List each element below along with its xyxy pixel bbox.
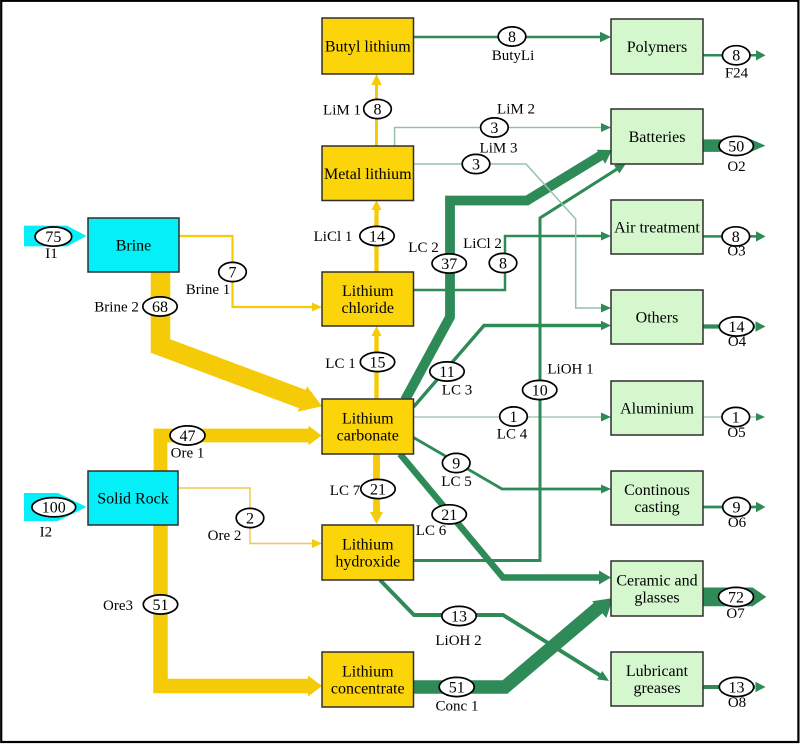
flow Ore3 (51) Solid Rock->Lithium concentrate	[161, 524, 311, 686]
svg-text:Brine: Brine	[116, 238, 152, 255]
svg-text:glasses: glasses	[634, 590, 679, 607]
svg-text:21: 21	[441, 507, 457, 524]
svg-text:Lithium: Lithium	[342, 411, 394, 428]
value ellipse O2 = 50	[719, 136, 753, 155]
value ellipse F24 = 8	[722, 46, 750, 65]
flow LiM 3 (3) Metal lithium->Others	[414, 164, 604, 308]
svg-text:O3: O3	[727, 244, 745, 260]
svg-text:Metal lithium: Metal lithium	[324, 166, 412, 183]
svg-text:72: 72	[728, 589, 744, 606]
svg-text:LC 3: LC 3	[442, 383, 472, 399]
svg-text:8: 8	[508, 29, 516, 46]
flow Brine 2 (68) Brine->Lithium carbonate	[161, 272, 310, 402]
svg-text:9: 9	[452, 455, 460, 472]
process box Brine	[88, 218, 179, 272]
svg-text:I1: I1	[45, 246, 58, 262]
svg-text:ButyLi: ButyLi	[492, 48, 535, 64]
svg-text:O8: O8	[728, 695, 746, 711]
svg-text:21: 21	[370, 481, 386, 498]
svg-text:1: 1	[732, 409, 740, 426]
svg-text:LC 7: LC 7	[330, 483, 361, 499]
svg-text:LC 2: LC 2	[408, 240, 438, 256]
flow LiM 2 (3) Metal lithium->Batteries	[395, 128, 603, 147]
svg-text:F24: F24	[725, 66, 749, 82]
svg-text:37: 37	[441, 256, 457, 273]
svg-text:Others: Others	[636, 310, 679, 327]
flow LiOH 1 arrowhead	[614, 159, 629, 173]
value ellipse LiM 3 = 3	[462, 154, 490, 173]
value ellipse O6 = 9	[723, 497, 751, 516]
flow LC 7 (21) Lithium carbonate->Lithium hydroxide	[373, 453, 380, 515]
value ellipse LC 1 = 15	[360, 352, 394, 371]
svg-text:O7: O7	[726, 606, 745, 622]
sink box Others	[611, 290, 703, 344]
svg-text:LiM 1: LiM 1	[323, 103, 361, 119]
svg-text:8: 8	[499, 255, 507, 272]
value ellipse LiM 1 = 8	[364, 99, 392, 118]
value ellipse LC 7 = 21	[361, 479, 395, 498]
process box Lithium chloride	[322, 272, 414, 326]
flow Brine 1 (7) Brine->Lithium chloride	[179, 236, 313, 307]
svg-text:Lithium: Lithium	[342, 283, 394, 300]
svg-text:LiM 3: LiM 3	[480, 140, 518, 156]
value ellipse ButyLi = 8	[498, 27, 526, 46]
value ellipse LC 6 = 21	[432, 505, 466, 524]
svg-text:hydroxide: hydroxide	[335, 554, 400, 571]
svg-text:Conc 1: Conc 1	[436, 699, 479, 715]
svg-text:47: 47	[180, 428, 196, 445]
flow O5 arrowhead	[756, 413, 765, 421]
process box Solid Rock	[88, 471, 178, 525]
svg-text:LiOH 2: LiOH 2	[435, 633, 481, 649]
flow LC 3 (11) Lithium carbonate->Others	[414, 326, 604, 408]
svg-text:100: 100	[42, 500, 66, 517]
flow LiM 1 arrowhead	[371, 74, 381, 85]
value ellipse Ore 2 = 2	[236, 508, 264, 527]
svg-text:Ore 2: Ore 2	[208, 528, 242, 544]
svg-text:LiCl 1: LiCl 1	[314, 229, 353, 245]
svg-text:10: 10	[532, 382, 548, 399]
svg-text:O5: O5	[727, 425, 745, 441]
svg-text:casting: casting	[634, 499, 679, 516]
value ellipse LiCl 1 = 14	[360, 226, 394, 245]
sink box Air treatment	[611, 200, 703, 254]
output O8 (13) from Lubricant greases	[703, 685, 755, 689]
svg-text:3: 3	[490, 120, 498, 137]
value ellipse O3 = 8	[722, 227, 750, 246]
svg-text:I2: I2	[40, 525, 53, 541]
svg-text:51: 51	[153, 597, 169, 614]
svg-text:Aluminium: Aluminium	[620, 401, 694, 418]
flow LiOH 2 (13) Lithium hydroxide->Lubricant greases	[380, 580, 600, 675]
value ellipse I2 100	[32, 498, 76, 517]
sink box Batteries	[611, 109, 703, 164]
output F24 (8) from Polymers	[703, 54, 756, 57]
svg-text:Continous: Continous	[624, 482, 690, 499]
value ellipse O5 = 1	[722, 407, 750, 426]
svg-text:51: 51	[449, 679, 465, 696]
svg-text:7: 7	[229, 264, 237, 281]
flow LiOH 2 arrowhead	[597, 671, 612, 685]
svg-text:O4: O4	[728, 334, 747, 350]
flow ButyLi arrowhead	[600, 32, 611, 42]
flow LC 1 (15) Lithium carbonate->Lithium chloride	[374, 332, 378, 400]
svg-text:9: 9	[733, 499, 741, 516]
svg-text:3: 3	[472, 156, 480, 173]
svg-text:LC 5: LC 5	[441, 474, 471, 490]
svg-text:Ore3: Ore3	[103, 598, 133, 614]
flow Conc 1 arrowhead	[592, 590, 620, 618]
flow LC 4 (1) Lithium carbonate->Aluminium	[414, 416, 603, 418]
value ellipse I1 75	[35, 227, 72, 246]
svg-text:50: 50	[728, 138, 744, 155]
flow LiM 2 arrowhead	[601, 123, 611, 132]
svg-text:15: 15	[370, 354, 386, 371]
svg-text:Lubricant: Lubricant	[626, 663, 689, 680]
value ellipse Brine 1 = 7	[219, 262, 247, 281]
flow Ore 1 arrowhead	[309, 426, 322, 446]
svg-text:Solid Rock: Solid Rock	[97, 491, 169, 508]
svg-text:Batteries: Batteries	[629, 129, 686, 146]
flow LC 5 (9) Lithium carbonate->Continous casting	[414, 438, 604, 490]
svg-text:Ceramic and: Ceramic and	[616, 573, 697, 590]
output O2 (50) from Batteries	[703, 139, 751, 152]
svg-text:13: 13	[451, 608, 467, 625]
flow Brine 2 arrowhead	[298, 386, 327, 419]
value ellipse O8 = 13	[719, 677, 753, 696]
value ellipse LiCl 2 = 8	[489, 253, 517, 272]
process box Metal lithium	[322, 146, 414, 201]
svg-text:Lithium: Lithium	[342, 537, 394, 554]
output O6 (9) from Continous casting	[703, 506, 756, 509]
flow LiCl 1 (14) Lithium chloride->Metal lithium	[374, 206, 378, 273]
svg-text:8: 8	[732, 48, 740, 65]
svg-text:LC 1: LC 1	[325, 356, 355, 372]
flow LC 5 arrowhead	[601, 485, 611, 494]
process box Lithium carbonate	[322, 399, 414, 454]
process box Lithium hydroxide	[322, 525, 414, 580]
output O3 (8) from Air treatment	[703, 235, 756, 238]
sink box Polymers	[611, 19, 703, 74]
svg-text:14: 14	[369, 228, 385, 245]
sink box Lubricant greases	[611, 652, 703, 706]
flow LiOH 1 (10) Lithium hydroxide->Batteries	[414, 168, 620, 561]
flow Conc 1 (51) Lithium concentrate->Ceramic and glasses	[414, 607, 600, 687]
flow LC 4 arrowhead	[601, 413, 611, 422]
flow LC 7 arrowhead	[370, 512, 383, 524]
svg-text:O2: O2	[727, 159, 745, 175]
svg-text:greases: greases	[633, 680, 680, 697]
svg-text:68: 68	[152, 299, 168, 316]
value ellipse Ore3 = 51	[143, 595, 177, 614]
process box Butyl lithium	[322, 18, 414, 74]
svg-text:75: 75	[45, 229, 61, 246]
svg-text:Butyl lithium: Butyl lithium	[325, 39, 411, 56]
value ellipse LC 3 = 11	[430, 362, 464, 381]
svg-text:O6: O6	[728, 515, 747, 531]
svg-text:11: 11	[439, 364, 454, 381]
value ellipse O4 = 14	[719, 317, 753, 336]
svg-text:13: 13	[729, 679, 745, 696]
flow LC 3 arrowhead	[601, 321, 611, 330]
svg-text:LC 6: LC 6	[416, 523, 447, 539]
svg-text:2: 2	[246, 510, 254, 527]
svg-text:Brine 1: Brine 1	[186, 282, 231, 298]
svg-text:Lithium: Lithium	[342, 664, 394, 681]
value ellipse O7 = 72	[719, 587, 754, 606]
svg-text:Brine 2: Brine 2	[94, 300, 139, 316]
flow LiCl 2 (8) Lithium chloride->Air treatment	[414, 236, 604, 290]
svg-text:Ore 1: Ore 1	[171, 446, 205, 462]
svg-text:concentrate: concentrate	[331, 681, 405, 698]
flow ButyLi (8) Butyl lithium->Polymers	[414, 36, 604, 39]
input I2 (100) into Solid Rock	[24, 493, 87, 521]
svg-text:LC 4: LC 4	[497, 427, 528, 443]
value ellipse Ore 1 = 47	[170, 426, 205, 445]
flow LiM 1 (8) Metal lithium->Butyl lithium	[375, 80, 378, 147]
svg-text:Air treatment: Air treatment	[614, 220, 700, 237]
flow LC 1 arrowhead	[372, 326, 382, 336]
output O7 (72) from Ceramic and glasses	[703, 588, 753, 607]
flow Ore 2 arrowhead	[312, 539, 322, 548]
value ellipse LiOH 2 = 13	[442, 606, 476, 625]
flow LC 6 arrowhead	[599, 571, 611, 585]
flow O5 (1) Aluminium output line	[703, 416, 757, 418]
value ellipse LiOH 1 = 10	[523, 380, 557, 399]
flow Ore 1 (47) Solid Rock->Lithium carbonate	[161, 436, 311, 473]
flow LC 2 arrowhead	[597, 143, 617, 164]
sink box Continous casting	[611, 471, 703, 525]
svg-text:1: 1	[510, 409, 518, 426]
flow LiM 3 arrowhead	[601, 304, 611, 313]
svg-text:LiCl 2: LiCl 2	[463, 236, 502, 252]
input I1 (75) into Brine	[24, 226, 87, 247]
value ellipse LC 5 = 9	[442, 453, 470, 472]
flow LC 2 (37) Lithium carbonate->Batteries	[405, 154, 603, 400]
svg-text:chloride: chloride	[342, 300, 394, 317]
flow Brine 1 arrowhead	[312, 303, 322, 312]
sink box Aluminium	[611, 381, 703, 435]
svg-text:LiM 2: LiM 2	[497, 102, 535, 118]
flow Ore3 arrowhead	[308, 676, 322, 697]
output O4 (14) from Others	[703, 324, 755, 328]
value ellipse LC 2 = 37	[432, 254, 466, 273]
svg-text:Polymers: Polymers	[627, 39, 687, 56]
value ellipse Conc 1 = 51	[439, 677, 474, 696]
flow LiCl 2 arrowhead	[601, 232, 611, 241]
sink box Ceramic and glasses	[611, 561, 703, 616]
svg-text:LiOH 1: LiOH 1	[547, 362, 593, 378]
svg-text:carbonate: carbonate	[337, 428, 399, 445]
flow Ore 2 (2) Solid Rock->Lithium hydroxide	[178, 488, 313, 544]
process box Lithium concentrate	[322, 652, 414, 707]
value ellipse LiM 2 = 3	[481, 118, 509, 137]
svg-text:8: 8	[374, 101, 382, 118]
value ellipse LC 4 = 1	[500, 407, 528, 426]
value ellipse Brine 2 = 68	[143, 297, 177, 316]
flow LC 6 (21) Lithium carbonate->Ceramic and glasses	[400, 454, 601, 578]
flow LiCl 1 arrowhead	[372, 200, 382, 210]
